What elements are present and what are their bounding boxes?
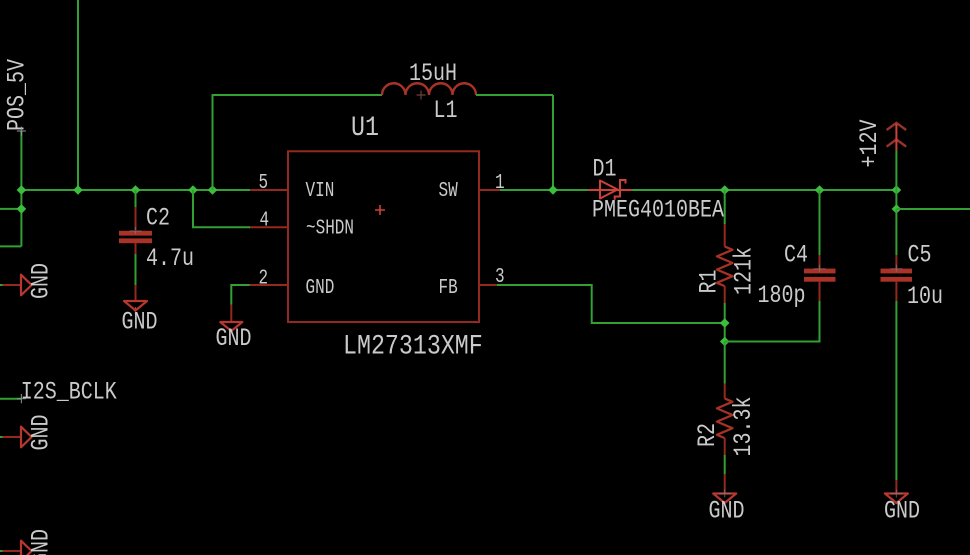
wire output right: [896, 208, 970, 210]
svg-text:R1: R1: [694, 269, 723, 293]
capacitor C5: [881, 209, 913, 494]
diode D1: [600, 180, 632, 200]
wire POS_5V rail: [21, 189, 250, 191]
capacitor C2 plates: [119, 231, 152, 236]
wire +12V down: [895, 151, 897, 210]
wire pin4 to rail: [193, 190, 250, 227]
wire POS_5V label stem: [20, 131, 22, 246]
svg-text:C4: C4: [784, 240, 808, 269]
svg-text:+12V: +12V: [855, 119, 884, 167]
svg-text:D1: D1: [593, 154, 617, 183]
svg-text:5: 5: [259, 170, 269, 195]
svg-text:SW: SW: [439, 178, 459, 203]
wire inductor right vertical: [552, 95, 554, 190]
ground GND under pin2: [216, 322, 252, 353]
pin 1 SW stub: [479, 189, 500, 191]
wire inductor left horizontal: [212, 94, 383, 96]
svg-text:121k: 121k: [729, 247, 758, 295]
svg-text:1: 1: [495, 170, 505, 195]
pin 3 FB stub: [479, 284, 497, 286]
node junction (896.4,209): [892, 204, 902, 214]
node junction (896.4,190): [892, 185, 902, 195]
diode D1 anode wire: [588, 189, 600, 191]
node junction (819.5,190): [815, 185, 825, 195]
node junction (724.7,323): [720, 318, 730, 328]
svg-text:C2: C2: [146, 203, 170, 232]
origin cross C2: [130, 227, 142, 234]
svg-text:GND: GND: [26, 414, 55, 450]
svg-text:C5: C5: [908, 240, 932, 269]
resistor R2: [717, 342, 733, 494]
svg-text:GND: GND: [26, 529, 55, 555]
svg-text:PMEG4010BEA: PMEG4010BEA: [592, 195, 724, 224]
svg-text:180p: 180p: [758, 281, 806, 310]
pin 2 GND stub: [249, 284, 288, 286]
svg-text:15uH: 15uH: [409, 59, 457, 88]
ground arrow GND left 1: [0, 263, 55, 299]
svg-text:2: 2: [259, 265, 269, 290]
svg-text:10u: 10u: [907, 282, 943, 311]
node junction (78,190): [73, 185, 83, 195]
node junction (724.7,190): [720, 185, 730, 195]
resistor R1: [717, 190, 733, 342]
ground GND under R2: [709, 490, 745, 526]
pin 5 VIN stub: [250, 189, 288, 191]
svg-text:4: 4: [260, 207, 270, 232]
svg-text:GND: GND: [26, 263, 55, 299]
ground arrow GND left 3: [0, 529, 55, 555]
svg-text:U1: U1: [351, 112, 379, 143]
wire stub left at y=209: [0, 208, 21, 210]
wire inductor right horizontal: [476, 94, 553, 96]
node junction (193,190): [188, 185, 198, 195]
svg-text:I2S_BCLK: I2S_BCLK: [21, 377, 117, 406]
ground arrow GND left 2: [0, 414, 55, 450]
wire I2S_BCLK stub: [0, 398, 21, 400]
svg-text:GND: GND: [216, 324, 252, 353]
power +12V symbol: [887, 123, 907, 151]
svg-text:GND: GND: [709, 496, 745, 525]
capacitor C2: [119, 190, 152, 301]
svg-text:VIN: VIN: [306, 178, 335, 203]
svg-text:LM27313XMF: LM27313XMF: [343, 331, 483, 362]
wire POS_5V vertical from top: [77, 0, 79, 190]
node junction (553,190): [548, 185, 558, 195]
svg-text:GND: GND: [122, 307, 158, 336]
capacitor C4: [725, 190, 836, 342]
label origin cross POS_5V: [17, 127, 26, 136]
svg-text:R2: R2: [693, 423, 722, 447]
node junction (21,209): [17, 204, 27, 214]
svg-text:13.3k: 13.3k: [729, 396, 758, 456]
svg-text:4.7u: 4.7u: [146, 244, 194, 273]
wire inductor loop left vertical: [212, 95, 214, 190]
wire FB net: [497, 285, 725, 323]
pin 4 ~SHDN stub: [249, 226, 288, 228]
node junction (212.5,190): [208, 185, 218, 195]
svg-text:FB: FB: [439, 275, 458, 300]
svg-text:~SHDN: ~SHDN: [306, 215, 354, 240]
origin cross L1: [417, 91, 426, 100]
svg-text:POS_5V: POS_5V: [2, 59, 31, 131]
wire output rail: [632, 189, 896, 191]
wire C2 top: [135, 190, 137, 207]
wire stub left at y=246: [0, 245, 21, 247]
wire SW net: [500, 189, 588, 191]
IC U1 origin cross: [375, 205, 385, 215]
wire pin2 down: [231, 285, 249, 305]
label origin tick I2S_BCLK: [17, 394, 26, 403]
IC U1 box: [288, 151, 479, 322]
inductor L1: [382, 83, 476, 99]
node junction (135.5,190): [131, 185, 141, 195]
ground GND under C2: [122, 301, 158, 336]
svg-text:GND: GND: [884, 496, 920, 525]
node junction (21,190): [17, 185, 27, 195]
node junction (724.7,341.5): [720, 337, 730, 347]
wire C2 bottom: [135, 243, 137, 254]
svg-text:L1: L1: [434, 96, 458, 125]
ground GND under C5: [884, 490, 920, 526]
svg-text:GND: GND: [306, 275, 335, 300]
